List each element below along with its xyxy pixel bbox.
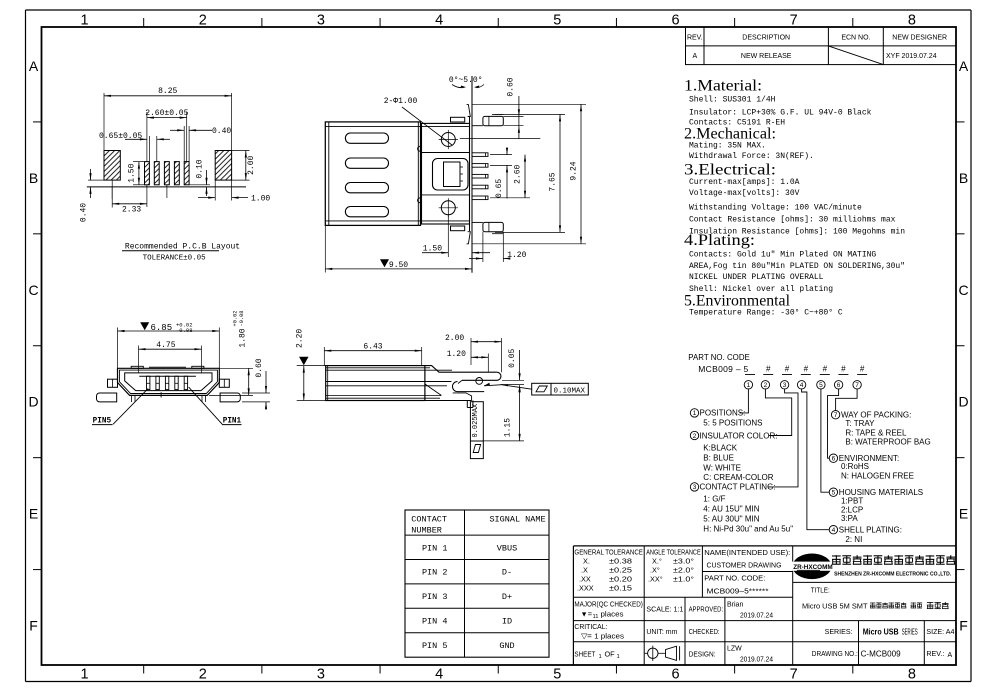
svg-text:Shell: SUS301 1/4H: Shell: SUS301 1/4H <box>689 95 776 104</box>
svg-text:9.50: 9.50 <box>389 261 408 270</box>
svg-text:Brian: Brian <box>727 602 743 609</box>
svg-text:PIN1: PIN1 <box>223 416 242 426</box>
svg-text:Current-max[amps]: 1.0A: Current-max[amps]: 1.0A <box>689 178 800 187</box>
svg-text:Contact Resistance [ohms]: 30: Contact Resistance [ohms]: 30 milliohms … <box>689 216 896 225</box>
svg-text:MCB009 – 5: MCB009 – 5 <box>698 364 748 374</box>
svg-text:MAJOR(QC CHECKED): MAJOR(QC CHECKED) <box>574 600 643 609</box>
svg-text:Micro USB 5M SMT: Micro USB 5M SMT <box>802 602 868 611</box>
svg-text:0:RoHS: 0:RoHS <box>841 462 869 471</box>
svg-text:D+: D+ <box>502 592 512 602</box>
svg-text:B: B <box>29 170 38 186</box>
svg-text:7: 7 <box>834 412 838 419</box>
svg-text:CRITICAL:: CRITICAL: <box>574 622 607 631</box>
svg-text:MCB009–5******: MCB009–5****** <box>707 587 769 596</box>
svg-text:Contacts: C5191 R-EH: Contacts: C5191 R-EH <box>689 118 785 127</box>
svg-text:2.33: 2.33 <box>122 206 141 215</box>
svg-text:#: # <box>860 365 865 374</box>
svg-text:Insulator: LCP+30% G.F. UL 94V: Insulator: LCP+30% G.F. UL 94V-0 Black <box>689 108 872 117</box>
svg-text:8.25: 8.25 <box>158 87 177 96</box>
svg-text:7: 7 <box>790 667 798 683</box>
svg-text:A: A <box>29 58 39 74</box>
svg-text:B: BLUE: B: BLUE <box>703 454 734 463</box>
svg-text:3: 3 <box>317 13 325 29</box>
svg-text:K:BLACK: K:BLACK <box>703 444 737 453</box>
svg-text:±2.0°: ±2.0° <box>673 566 694 575</box>
svg-text:0°~5.0°: 0°~5.0° <box>449 76 483 85</box>
svg-text:NUMBER: NUMBER <box>411 526 442 536</box>
svg-text:PIN 1: PIN 1 <box>422 543 448 553</box>
svg-text:2: 2 <box>693 433 697 440</box>
svg-text:C-MCB009: C-MCB009 <box>861 650 902 659</box>
svg-text:4: 4 <box>800 382 804 389</box>
svg-text:LZW: LZW <box>727 646 742 653</box>
svg-text:0.65: 0.65 <box>495 179 504 198</box>
svg-text:6: 6 <box>671 13 679 29</box>
svg-text:A: A <box>948 652 953 659</box>
svg-text:±0.15: ±0.15 <box>609 584 632 593</box>
svg-text:Shell: Nickel over all plating: Shell: Nickel over all plating <box>689 285 833 294</box>
svg-text:SIGNAL NAME: SIGNAL NAME <box>489 515 545 525</box>
svg-text:SIZE: A4: SIZE: A4 <box>926 627 954 636</box>
svg-text:1: 1 <box>599 654 602 660</box>
svg-text:11: 11 <box>593 614 599 620</box>
svg-text:9.24: 9.24 <box>570 161 579 180</box>
svg-text:.XXX: .XXX <box>577 584 594 593</box>
svg-text:6: 6 <box>832 456 836 463</box>
svg-text:2.00: 2.00 <box>247 155 256 174</box>
svg-text:4.75: 4.75 <box>156 341 175 350</box>
svg-text:0.05: 0.05 <box>508 348 517 367</box>
svg-text:1: 1 <box>693 410 697 417</box>
svg-text:4: AU 15U" MIN: 4: AU 15U" MIN <box>703 504 759 513</box>
svg-text:1.20: 1.20 <box>507 251 526 260</box>
svg-text:E: E <box>29 506 38 522</box>
svg-text:.XX°: .XX° <box>648 575 663 584</box>
svg-text:2.20: 2.20 <box>296 329 305 348</box>
svg-text:TOLERANCE±0.05: TOLERANCE±0.05 <box>143 255 207 263</box>
svg-text:NAME(INTENDED USE):: NAME(INTENDED USE): <box>704 548 790 557</box>
svg-text:R: TAPE & REEL: R: TAPE & REEL <box>845 428 907 437</box>
svg-text:T: TRAY: T: TRAY <box>845 419 875 428</box>
svg-text:DRAWING NO.:: DRAWING NO.: <box>812 649 858 658</box>
svg-text:±0.25: ±0.25 <box>609 566 632 575</box>
svg-text:#: # <box>841 365 846 374</box>
svg-text:places: places <box>601 610 624 619</box>
svg-text:3.Electrical:: 3.Electrical: <box>684 162 776 179</box>
svg-text:5: 5 POSITIONS: 5: 5 POSITIONS <box>703 419 762 428</box>
svg-text:▽= 1 places: ▽= 1 places <box>581 632 624 641</box>
svg-text:1.15: 1.15 <box>504 418 513 437</box>
svg-text:±0.38: ±0.38 <box>609 557 632 566</box>
svg-text:5.Environmental: 5.Environmental <box>684 293 790 310</box>
svg-text:PIN 3: PIN 3 <box>422 592 448 602</box>
svg-text:7.65: 7.65 <box>548 172 557 191</box>
svg-text:0.65±0.05: 0.65±0.05 <box>99 132 142 141</box>
svg-text:Contacts: Gold 1u" Min Plated: Contacts: Gold 1u" Min Plated ON MATING <box>689 251 876 260</box>
svg-text:±1.0°: ±1.0° <box>673 575 694 584</box>
svg-text:#: # <box>804 365 809 374</box>
svg-text:8: 8 <box>908 13 916 29</box>
svg-text:A: A <box>692 53 697 60</box>
svg-text:Recommended P.C.B Layout: Recommended P.C.B Layout <box>125 242 240 251</box>
svg-text:2.Mechanical:: 2.Mechanical: <box>684 126 776 143</box>
svg-text:Withdrawal Force: 3N(REF).: Withdrawal Force: 3N(REF). <box>689 152 814 161</box>
svg-text:X.: X. <box>583 557 590 566</box>
svg-text:SERIES: SERIES <box>902 628 918 637</box>
svg-text:2019.07.24: 2019.07.24 <box>740 613 773 620</box>
svg-text:D: D <box>958 394 968 410</box>
svg-text:B: WATERPROOF BAG: B: WATERPROOF BAG <box>845 438 930 447</box>
svg-text:NICKEL UNDER PLATING OVERALL: NICKEL UNDER PLATING OVERALL <box>689 273 824 282</box>
svg-text:2.60±0.05: 2.60±0.05 <box>145 109 188 118</box>
svg-text:Voltage-max[volts]: 30V: Voltage-max[volts]: 30V <box>689 189 800 198</box>
svg-text:1.20: 1.20 <box>447 350 466 359</box>
svg-text:Mating: 35N MAX.: Mating: 35N MAX. <box>689 141 766 150</box>
svg-text:7: 7 <box>790 13 798 29</box>
svg-text:0.40: 0.40 <box>79 203 88 222</box>
svg-text:DESIGN:: DESIGN: <box>689 650 716 659</box>
svg-text:DESCRIPTION: DESCRIPTION <box>742 35 790 42</box>
svg-text:0.60: 0.60 <box>255 358 264 377</box>
svg-text:D: D <box>28 394 38 410</box>
svg-text:CHECKED:: CHECKED: <box>689 627 720 636</box>
svg-text:OF: OF <box>605 650 616 659</box>
svg-text:0.10: 0.10 <box>195 159 204 178</box>
svg-text:.X°: .X° <box>650 566 660 575</box>
svg-text:GENERAL TOLERANCE: GENERAL TOLERANCE <box>574 548 643 557</box>
svg-text:-0.08: -0.08 <box>239 311 245 327</box>
svg-text:5: 5 <box>553 13 561 29</box>
svg-text:6: 6 <box>837 382 841 389</box>
svg-text:Withstanding Voltage: 100 VAC/: Withstanding Voltage: 100 VAC/minute <box>689 204 862 213</box>
svg-text:A: A <box>959 58 969 74</box>
svg-text:2: NI: 2: NI <box>845 535 862 544</box>
svg-text:1: G/F: 1: G/F <box>703 495 725 504</box>
svg-text:±0.20: ±0.20 <box>609 575 632 584</box>
svg-text:2-Φ1.00: 2-Φ1.00 <box>384 97 418 106</box>
svg-text:TITLE:: TITLE: <box>811 586 830 595</box>
svg-text:#: # <box>785 365 790 374</box>
svg-text:APPROVED:: APPROVED: <box>689 605 724 614</box>
svg-text:SHENZHEN ZR-HXCOMM ELECTRONI: SHENZHEN ZR-HXCOMM ELECTRONIC CO.,LTD. <box>834 571 951 577</box>
svg-text:NEW DESIGNER: NEW DESIGNER <box>892 35 947 42</box>
svg-text:.XX: .XX <box>579 575 591 584</box>
svg-text:5: 5 <box>819 382 823 389</box>
svg-text:2: 2 <box>199 667 207 683</box>
svg-text:SCALE: 1:1: SCALE: 1:1 <box>646 605 683 614</box>
svg-text:INSULATOR COLOR:: INSULATOR COLOR: <box>700 431 778 440</box>
svg-text:AREA,Fog tin 80u"Min PLATED ON: AREA,Fog tin 80u"Min PLATED ON SOLDERING… <box>689 262 905 271</box>
svg-text:1: 1 <box>81 667 89 683</box>
svg-text:PIN 4: PIN 4 <box>422 617 448 627</box>
svg-text:1: 1 <box>617 654 620 660</box>
svg-text:F: F <box>29 618 38 634</box>
svg-text:±3.0°: ±3.0° <box>673 557 694 566</box>
svg-text:XYF 2019.07.24: XYF 2019.07.24 <box>886 53 937 60</box>
svg-text:Temperature Range: -30° C~+80°: Temperature Range: -30° C~+80° C <box>689 309 843 318</box>
svg-text:2.00: 2.00 <box>445 334 464 343</box>
svg-text:0.025MAX: 0.025MAX <box>472 403 480 437</box>
svg-text:SHEET: SHEET <box>574 650 595 659</box>
svg-text:PART NO. CODE:: PART NO. CODE: <box>704 574 765 583</box>
svg-text:1: 1 <box>747 382 751 389</box>
svg-text:.X: .X <box>581 566 588 575</box>
svg-text:5: 5 <box>832 490 836 497</box>
svg-text:C: C <box>958 282 968 298</box>
svg-text:REV.:: REV.: <box>926 649 944 658</box>
svg-text:2: 2 <box>199 13 207 29</box>
svg-text:8: 8 <box>908 667 916 683</box>
svg-text:3: 3 <box>317 667 325 683</box>
svg-text:-0.08: -0.08 <box>176 327 193 334</box>
svg-text:2019.07.24: 2019.07.24 <box>740 657 773 664</box>
svg-text:ID: ID <box>502 617 512 627</box>
svg-text:PIN 5: PIN 5 <box>422 641 448 651</box>
svg-text:HOUSING MATERIALS: HOUSING MATERIALS <box>839 488 923 497</box>
svg-text:X.°: X.° <box>652 557 662 566</box>
svg-text:1: 1 <box>81 13 89 29</box>
svg-text:+0.02: +0.02 <box>233 311 239 327</box>
svg-text:0.60: 0.60 <box>507 77 516 96</box>
svg-text:SERIES:: SERIES: <box>825 627 853 636</box>
svg-text:C: CREAM-COLOR: C: CREAM-COLOR <box>703 473 773 482</box>
svg-text:PART NO. CODE: PART NO. CODE <box>688 352 750 362</box>
svg-text:CONTACT: CONTACT <box>411 515 447 525</box>
svg-text:#: # <box>823 365 828 374</box>
svg-text:F: F <box>959 618 968 634</box>
svg-text:1:PBT: 1:PBT <box>841 497 863 506</box>
svg-text:H: Ni-Pd 30u" and Au 5u": H: Ni-Pd 30u" and Au 5u" <box>703 525 793 534</box>
svg-text:PIN 2: PIN 2 <box>422 568 448 578</box>
svg-text:C: C <box>28 282 38 298</box>
svg-text:4: 4 <box>832 527 836 534</box>
svg-text:UNIT: mm: UNIT: mm <box>646 627 677 636</box>
svg-text:ECN NO.: ECN NO. <box>841 35 870 42</box>
svg-text:4: 4 <box>435 667 443 683</box>
svg-text:NEW RELEASE: NEW RELEASE <box>741 53 792 60</box>
svg-text:5: AU 30U" MIN: 5: AU 30U" MIN <box>703 515 759 524</box>
svg-text:ANGLE TOLERANCE: ANGLE TOLERANCE <box>646 548 701 557</box>
svg-text:#: # <box>766 365 771 374</box>
svg-text:CUSTOMER DRAWING: CUSTOMER DRAWING <box>707 561 782 570</box>
svg-text:0.40: 0.40 <box>212 127 231 136</box>
svg-text:7: 7 <box>855 382 859 389</box>
svg-text:PIN5: PIN5 <box>93 416 112 426</box>
svg-text:3: 3 <box>693 484 697 491</box>
svg-text:1.50: 1.50 <box>128 163 137 182</box>
svg-text:0.10MAX: 0.10MAX <box>554 387 586 395</box>
svg-text:POSITIONS:: POSITIONS: <box>700 409 746 418</box>
svg-text:3:PA: 3:PA <box>841 514 858 523</box>
svg-text:Micro USB: Micro USB <box>863 628 899 637</box>
svg-text:6.85: 6.85 <box>151 323 173 333</box>
svg-text:GND: GND <box>499 641 514 651</box>
svg-text:2.60: 2.60 <box>513 164 522 183</box>
svg-text:1.80: 1.80 <box>238 328 247 347</box>
svg-text:REV.: REV. <box>687 35 703 42</box>
svg-text:1.50: 1.50 <box>423 244 442 253</box>
svg-text:3: 3 <box>783 382 787 389</box>
svg-text:B: B <box>959 170 968 186</box>
svg-text:▼=: ▼= <box>581 610 592 619</box>
svg-text:2: 2 <box>764 382 768 389</box>
svg-text:W: WHITE: W: WHITE <box>703 463 741 472</box>
svg-text:4: 4 <box>435 13 443 29</box>
svg-text:SHELL PLATING:: SHELL PLATING: <box>839 526 902 535</box>
svg-text:6.43: 6.43 <box>363 343 382 352</box>
svg-text:N: HALOGEN FREE: N: HALOGEN FREE <box>841 471 914 480</box>
svg-text:E: E <box>959 506 968 522</box>
svg-text:5: 5 <box>553 667 561 683</box>
svg-text:D-: D- <box>502 568 512 578</box>
svg-text:VBUS: VBUS <box>497 543 517 553</box>
svg-text:6: 6 <box>671 667 679 683</box>
svg-text:1.00: 1.00 <box>251 195 270 204</box>
svg-text:1.Material:: 1.Material: <box>684 78 762 95</box>
svg-text:Insulation Resistance [ohms]:: Insulation Resistance [ohms]: 100 Megohm… <box>689 227 905 236</box>
svg-text:CONTACT PLATING:: CONTACT PLATING: <box>700 483 776 492</box>
